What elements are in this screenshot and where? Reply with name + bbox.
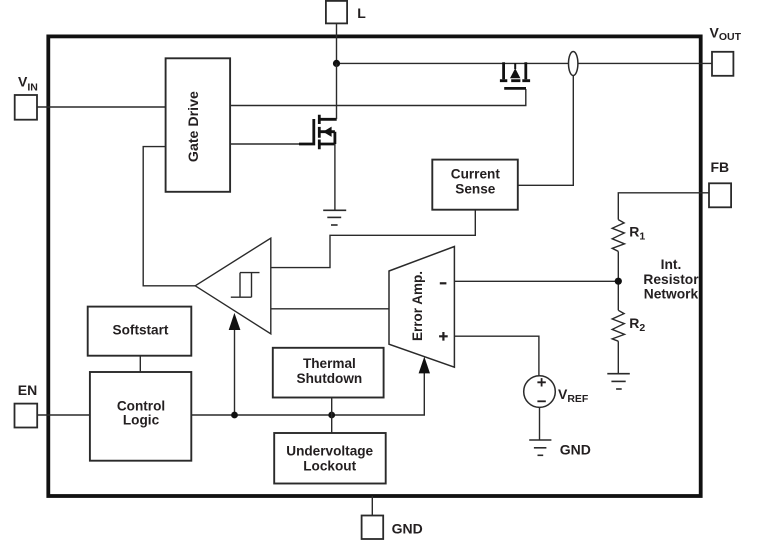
svg-text:Logic: Logic — [123, 412, 160, 427]
block Current Sense — [432, 160, 518, 210]
block Control Logic — [90, 372, 191, 461]
label Int. Resistor Network — [643, 257, 699, 301]
transistor Q1 (low-side NMOS) — [299, 115, 337, 150]
pin pad EN — [15, 382, 38, 428]
svg-text:Softstart: Softstart — [113, 322, 169, 337]
wire VREF to ground — [539, 407, 541, 440]
op-amp Error Amp — [389, 247, 454, 368]
svg-text:R1: R1 — [629, 223, 645, 242]
wire Gate Drive to NMOS gate — [230, 143, 301, 145]
wire R1 to node — [617, 251, 619, 310]
svg-text:Error Amp.: Error Amp. — [410, 271, 425, 341]
node bus junction A — [231, 412, 238, 419]
voltage source VREF — [524, 376, 589, 408]
resistor R2 — [612, 310, 645, 341]
svg-text:Current: Current — [451, 167, 501, 182]
svg-text:EN: EN — [18, 382, 37, 398]
IC boundary — [48, 36, 700, 496]
svg-text:GND: GND — [560, 441, 591, 457]
svg-text:GND: GND — [392, 521, 423, 537]
comparator U1 — [195, 238, 271, 334]
pin pad GND — [362, 516, 423, 540]
wire Gate Drive to rectifier gate — [230, 89, 526, 106]
comparator U1 output wire to Gate Drive — [143, 147, 195, 286]
svg-text:VIN: VIN — [18, 74, 38, 94]
block Undervoltage Lockout — [274, 433, 386, 484]
svg-text:Int.: Int. — [661, 257, 682, 272]
pin pad FB — [709, 159, 731, 207]
wire R2 to ground — [617, 341, 619, 374]
svg-text:L: L — [357, 5, 366, 21]
wire error amp minus input to FB node — [454, 280, 618, 282]
transistor Q2 (rectifier FET) — [500, 62, 530, 88]
svg-text:Shutdown: Shutdown — [297, 371, 363, 386]
ground (NMOS source) — [323, 210, 346, 225]
wire VIN to Gate Drive — [37, 106, 166, 108]
resistor R1 — [612, 220, 645, 252]
svg-text:Resistor: Resistor — [643, 272, 699, 287]
ground GND (VREF) — [529, 440, 591, 457]
svg-text:R2: R2 — [629, 315, 645, 334]
wire arrow into error amp — [419, 357, 430, 374]
pin pad L — [326, 1, 366, 24]
wire EN to Control Logic — [37, 414, 90, 416]
svg-text:Network: Network — [644, 286, 699, 301]
wire error amp plus input to VREF — [454, 336, 539, 376]
node bus junction B — [328, 412, 335, 419]
wire NMOS source down — [334, 144, 336, 210]
wire FB to divider — [618, 193, 709, 220]
pin pad VIN — [15, 74, 38, 120]
pin pad VOUT — [710, 24, 742, 75]
svg-text:Sense: Sense — [455, 182, 495, 197]
wire Current Sense to comparator — [271, 210, 476, 268]
ground (R2) — [607, 374, 630, 389]
wire ellipse to Current Sense — [518, 76, 574, 186]
wire Softstart to Control Logic — [139, 356, 141, 372]
wire error amp output to comparator — [271, 308, 389, 310]
svg-text:Undervoltage: Undervoltage — [286, 444, 373, 459]
svg-text:VOUT: VOUT — [710, 24, 742, 43]
svg-text:Gate Drive: Gate Drive — [186, 91, 202, 162]
svg-text:Lockout: Lockout — [303, 458, 356, 473]
wire NMOS drain up — [336, 63, 338, 119]
svg-text:VREF: VREF — [558, 386, 589, 405]
wire L pad to rail — [336, 23, 338, 63]
inductor current sense ellipse — [569, 52, 578, 76]
wire control bus — [191, 371, 424, 415]
svg-text:FB: FB — [711, 159, 730, 175]
block Softstart — [88, 307, 192, 356]
block Thermal Shutdown — [273, 348, 384, 398]
wire top rail to VOUT — [337, 62, 569, 64]
svg-text:Thermal: Thermal — [303, 356, 356, 371]
node FB divider junction — [615, 278, 622, 285]
wire arrow into comparator — [234, 329, 236, 415]
block Gate Drive — [166, 58, 231, 192]
wire junction B to Thermal Shutdown and UVLO — [331, 398, 333, 434]
node L/rail junction — [333, 60, 340, 67]
svg-text:Control: Control — [117, 398, 165, 413]
wire GND pad to border — [371, 496, 373, 516]
